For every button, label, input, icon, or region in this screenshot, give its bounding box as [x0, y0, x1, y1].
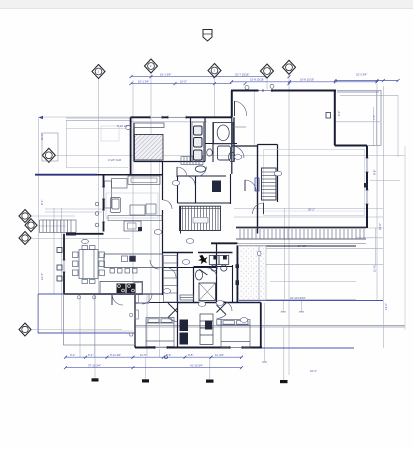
- stove burners dark: [117, 284, 136, 294]
- blue dim y294 left stub: [38, 293, 64, 295]
- closet dark doors: [180, 320, 189, 345]
- dim origin circle: [165, 356, 168, 359]
- bath2 toilet: [195, 270, 202, 280]
- svg-text:11'-3/4": 11'-3/4": [215, 353, 224, 357]
- couch living vertical: [105, 181, 112, 208]
- wall stairwell west x259: [257, 145, 259, 234]
- wall fireplace south y161.5: [134, 161, 205, 163]
- svg-text:9'-11 3/4": 9'-11 3/4": [110, 353, 121, 357]
- svg-text:11'-8": 11'-8": [373, 265, 377, 272]
- foyer closet line: [232, 126, 246, 128]
- master closet drawers dark: [194, 126, 203, 160]
- kitchen island: [104, 254, 163, 268]
- built-in closet master: [192, 122, 204, 162]
- ticks top row2: [130, 82, 133, 85]
- svg-text:3'-1": 3'-1": [70, 353, 75, 357]
- wall stairwell east x277.5: [277, 145, 279, 203]
- left grid leader y225: [38, 225, 66, 227]
- dimension labels: [70, 72, 367, 373]
- black section ticks bottom: [92, 378, 288, 383]
- tick extension x145.5: [145, 358, 147, 379]
- wall hall west x162.5 lower: [162, 210, 164, 253]
- couch living horizontal: [112, 179, 128, 189]
- kitchen sink cabinet: [124, 221, 141, 231]
- wall bed3 east x260.8: [260, 303, 262, 348]
- dining chairs right: [99, 252, 105, 258]
- closet row bed wing: [180, 295, 194, 300]
- grid marker M2: [145, 59, 158, 73]
- patio post line x259: [258, 246, 260, 302]
- window glazing gaps: [64, 91, 367, 348]
- wall family south y294: [64, 293, 135, 295]
- step handrail dark: [66, 233, 76, 236]
- wall bath mid x205: [204, 117, 206, 162]
- svg-text:12'-4": 12'-4": [40, 273, 44, 280]
- deck inner dim vertical x373: [372, 107, 374, 146]
- extension vertical x54: [53, 208, 55, 294]
- svg-text:22'-3 3/4": 22'-3 3/4": [356, 72, 367, 76]
- bed3 door leaf diagonal: [217, 305, 227, 315]
- tick extension x95: [94, 294, 96, 378]
- wall hall west x162.5: [162, 162, 164, 201]
- bed 3 pillows: [223, 321, 235, 325]
- grid marker M1: [92, 65, 105, 79]
- svg-text:14'-2": 14'-2": [384, 303, 388, 310]
- fridge: [134, 283, 142, 294]
- patio extension foot: [262, 361, 267, 363]
- window glass lines: [64, 91, 367, 348]
- long blue line y300.5: [239, 300, 383, 302]
- greatroom inner line2: [264, 210, 365, 212]
- markers group: [19, 30, 296, 337]
- bed1 closet: [139, 295, 150, 304]
- rotated dim labels: [40, 111, 388, 310]
- island sink dark: [130, 256, 136, 262]
- grid leader M3 vertical: [214, 77, 216, 117]
- wall blue deck-edge y174.7: [35, 174, 97, 176]
- grade line y326 double: [135, 325, 405, 327]
- media console: [128, 176, 160, 184]
- wall stair header y144.5: [258, 144, 278, 146]
- svg-text:5'-10 1/4": 5'-10 1/4": [117, 124, 128, 128]
- wall stair west x180.5 upper: [180, 206, 182, 234]
- grid marker M6: [42, 148, 55, 162]
- wall patio west x237.4: [236, 246, 238, 303]
- porch edge y212: [45, 211, 104, 213]
- svg-text:24'-10 13/16": 24'-10 13/16": [290, 296, 306, 300]
- grid marker M4: [261, 64, 274, 78]
- porch extension x283: [282, 301, 284, 312]
- wall laundry north y252.5: [198, 252, 233, 254]
- vanity powder: [218, 146, 231, 160]
- wall greatroom east x367: [366, 146, 368, 229]
- greatroom balcony door tick: [364, 183, 367, 188]
- porch outline bottom left: [64, 294, 136, 345]
- svg-text:37'-10 3/4": 37'-10 3/4": [88, 363, 101, 367]
- wall bath2 south y302.5: [178, 302, 261, 304]
- right margin line y121.8: [334, 121, 380, 123]
- porch line y237.8: [356, 237, 383, 239]
- svg-text:24'-5": 24'-5": [378, 223, 382, 230]
- wall garage west x231.8: [231, 91, 233, 118]
- bed3 door arc: [217, 315, 227, 319]
- grid marker M7: [19, 210, 31, 223]
- bottom dim row 1: [66, 356, 242, 358]
- wall wc north y176: [178, 175, 227, 177]
- extension vertical x61.5: [61, 208, 63, 333]
- bed 3: [221, 320, 250, 348]
- long line y299.3: [241, 298, 356, 300]
- deck posts west: [57, 248, 62, 282]
- kitchen north counter: [108, 216, 162, 221]
- grid line A horizontal: [56, 155, 405, 157]
- extension vertical x147: [146, 294, 148, 357]
- wall hall north y294 thin: [135, 293, 163, 295]
- svg-text:8'-1": 8'-1": [40, 200, 44, 205]
- porch skylight faint: [101, 126, 119, 141]
- patio pilaster 2: [236, 280, 240, 285]
- ticks bottom row1: [64, 356, 67, 359]
- svg-text:16'-8 15/16": 16'-8 15/16": [300, 78, 314, 82]
- svg-text:9'-5": 9'-5": [188, 353, 193, 357]
- porch inner line: [64, 330, 134, 332]
- wall bed wing north y243.3: [211, 242, 237, 244]
- wall bed1 closet south y303: [135, 302, 149, 304]
- long line y281.6: [270, 281, 356, 283]
- bed 1 pillows: [148, 319, 159, 323]
- extension line top-left long: [39, 116, 208, 118]
- wall bath2 east x216.5: [216, 243, 218, 302]
- tick extension x209.8: [209, 358, 211, 379]
- ticks bottom row2: [64, 366, 67, 369]
- kitchen counter south: [100, 282, 143, 295]
- svg-text:10'-3": 10'-3": [310, 369, 317, 373]
- dining table: [79, 250, 98, 279]
- porch post circles: [77, 296, 80, 299]
- window sill ticks: [63, 89, 369, 349]
- foyer door arc: [253, 203, 264, 214]
- wall wc x195.5: [195, 176, 197, 203]
- wall foyer south y146: [232, 145, 258, 147]
- deck inner line: [337, 91, 379, 93]
- svg-text:3 1/2" CLR: 3 1/2" CLR: [108, 158, 121, 162]
- dining chairs left: [73, 252, 79, 258]
- left yard line y128.6: [66, 128, 128, 130]
- wall family west lower x64: [63, 234, 65, 294]
- left dim vertical x38.5: [38, 118, 40, 334]
- door arcs: [142, 101, 256, 311]
- mudroom bench shelving: [193, 218, 208, 224]
- grid leader M5 vertical: [288, 74, 290, 375]
- wall family west x103.5: [103, 176, 105, 232]
- bathtub master: [214, 123, 234, 144]
- wall bed2 closet x232.5: [232, 265, 234, 303]
- bay window seat master: [42, 133, 58, 161]
- deck outline top right: [337, 90, 381, 145]
- wall bath east x234: [233, 117, 235, 162]
- svg-text:7'-1": 7'-1": [372, 115, 376, 120]
- armchair living: [146, 204, 156, 214]
- garage east wall bump: [326, 113, 331, 119]
- bottom dim row 2: [66, 367, 242, 369]
- grid marker M3: [208, 64, 221, 78]
- armchair living 1: [111, 198, 121, 213]
- wall closet row west x177.5: [177, 253, 179, 348]
- wall fireplace west x134: [133, 123, 135, 162]
- porch column bump: [135, 310, 139, 319]
- bed1 door leaf diagonal: [168, 308, 178, 318]
- wall garage north y90.5: [231, 90, 336, 92]
- wall hall west x177.5 upper: [177, 176, 179, 203]
- right margin line y95: [340, 94, 398, 96]
- svg-text:4'-2": 4'-2": [337, 111, 341, 116]
- deck inner dim vertical x376.3: [375, 91, 377, 145]
- wall kitchen east x162.5: [162, 253, 164, 295]
- wall hall south y267.5: [163, 267, 217, 269]
- window band left y120.4: [66, 119, 131, 121]
- column bubbles grid A: [95, 202, 99, 206]
- left grid leader y329.5: [32, 329, 122, 331]
- long line y264.7: [241, 264, 383, 266]
- stair upper flight: [262, 168, 277, 200]
- wall porch east x135: [134, 294, 136, 348]
- wall bath2 west x193.5: [193, 267, 195, 303]
- right margin line y180.6: [370, 180, 400, 182]
- stair lower flight: [180, 206, 221, 230]
- left dim vertical x38: [37, 294, 39, 333]
- left grid leader y216: [32, 215, 75, 217]
- top dim row 1: [131, 76, 267, 78]
- wall porch jog y233.8: [73, 233, 104, 235]
- svg-text:16'-1 3/4": 16'-1 3/4": [138, 80, 149, 84]
- grid marker M9: [19, 232, 31, 245]
- door size pills: [82, 84, 282, 322]
- svg-text:16'-1 3/4": 16'-1 3/4": [160, 72, 171, 76]
- wall greatroom north y145.5: [335, 145, 367, 147]
- grid marker M5: [283, 60, 296, 74]
- wall garage east x334.8: [334, 91, 336, 146]
- svg-text:10'-5": 10'-5": [180, 80, 187, 84]
- svg-text:36'-2": 36'-2": [308, 208, 315, 212]
- wall hall east x230.5: [230, 174, 232, 204]
- svg-text:9'-6": 9'-6": [373, 170, 377, 175]
- window band left y118: [66, 117, 131, 119]
- wall tub south y143.5: [205, 143, 237, 145]
- right dim vertical x398: [397, 95, 399, 157]
- family porch door arc: [112, 294, 123, 305]
- powder vanity dark: [212, 181, 221, 193]
- bed 1: [146, 318, 174, 347]
- wall laundry south y266.5: [194, 266, 233, 268]
- side table living: [130, 205, 145, 215]
- patio extension x94.5: [94, 294, 96, 357]
- far right extension vertical x405: [404, 146, 406, 330]
- grid leader M1 vertical: [98, 78, 100, 294]
- tick extension x283.8: [283, 327, 285, 380]
- wall foyer west x231.8 lower: [231, 117, 233, 174]
- svg-text:6'-1": 6'-1": [88, 353, 93, 357]
- long blue line y348 right: [262, 347, 354, 349]
- left yard line y167.5: [66, 167, 128, 169]
- rug outline: [106, 193, 158, 218]
- grid marker M10: [19, 323, 31, 336]
- patio pilaster 1: [236, 264, 240, 268]
- svg-text:11'-2": 11'-2": [40, 133, 44, 140]
- wall bedrooms south y347.5: [135, 347, 262, 349]
- fireplace hatched mass: [134, 123, 164, 160]
- porch edge y209: [45, 208, 104, 210]
- porch corner connector y228: [367, 227, 384, 229]
- svg-text:32'-7 15/16": 32'-7 15/16": [235, 72, 249, 76]
- exterior steps west: [40, 220, 77, 233]
- laundry washer: [209, 256, 228, 272]
- powder toilet: [195, 166, 205, 172]
- door leaf lines: [177, 101, 245, 191]
- left grid leader y238: [32, 238, 130, 240]
- laundry door leaf diagonal: [199, 269, 207, 275]
- railing band top: [236, 228, 366, 244]
- grid leader M2 vertical: [150, 73, 152, 294]
- ticks top-right stub: [334, 79, 337, 82]
- ticks top row1: [130, 75, 133, 78]
- nightstand bed3: [217, 320, 222, 326]
- extension line master north sill: [131, 121, 207, 123]
- left yard dim vertical x66.3: [65, 121, 67, 168]
- bed1 door arc: [168, 318, 178, 322]
- stippled patio: [239, 246, 267, 300]
- patio extension x80: [79, 294, 81, 357]
- bath2 shower: [199, 283, 216, 301]
- wall stairhall south y252.5: [163, 252, 194, 254]
- svg-text:11'-5": 11'-5": [140, 353, 147, 357]
- dining chairs ends: [82, 246, 88, 250]
- island stools: [110, 269, 115, 274]
- svg-text:8'-5": 8'-5": [166, 353, 171, 357]
- linen closet shelves: [200, 314, 213, 345]
- extension vertical x284.5: [284, 208, 286, 300]
- greatroom tray ceiling: [264, 150, 365, 216]
- extension vertical garage x254: [253, 91, 255, 145]
- long line y217: [234, 216, 383, 218]
- top-right dim stub: [335, 80, 398, 82]
- ticks garage row: [230, 80, 233, 83]
- railing posts: [240, 229, 364, 239]
- wall master west x130.6: [130, 117, 132, 174]
- long line y208.6: [234, 208, 383, 210]
- porch extension x301.5: [301, 301, 303, 312]
- extension vertical x133: [132, 80, 134, 294]
- porch extension feet: [281, 311, 286, 313]
- wall master north y117.3: [131, 116, 232, 118]
- grid leader M4 vertical: [266, 78, 268, 91]
- pantry cabinets column: [164, 256, 178, 303]
- master closet band: [181, 157, 203, 165]
- stair window niche blue: [255, 178, 259, 191]
- svg-text:24'-10": 24'-10": [298, 244, 306, 248]
- master bath sink: [207, 149, 213, 156]
- svg-text:15'-8 15/16": 15'-8 15/16": [250, 78, 264, 82]
- patio extension x264.5: [264, 303, 266, 362]
- porch dim vertical x375.3: [374, 228, 376, 266]
- wall wc south y203: [178, 202, 232, 204]
- wall bath west x190.5: [190, 117, 192, 162]
- extension vertical x159.5: [159, 155, 161, 357]
- right dim vertical x377: [376, 84, 378, 300]
- top toolbar strip: [0, 0, 413, 8]
- top dim row 2: [131, 83, 232, 85]
- svg-text:41'-10 3/4": 41'-10 3/4": [190, 363, 203, 367]
- wall master south y174.7: [97, 174, 163, 176]
- grid marker M8: [25, 219, 37, 232]
- arrowhead left: [39, 116, 44, 119]
- long line y248.3: [241, 247, 383, 249]
- patio edge dark y246: [237, 245, 356, 247]
- wall closets y302.5 mid: [149, 302, 178, 304]
- ceiling fan star symbol: [198, 255, 208, 264]
- bottom-left blue dim y333: [38, 332, 135, 334]
- patio pill: [257, 251, 261, 256]
- keynote tag T1: [203, 30, 212, 42]
- right dim vertical x383: [382, 86, 384, 348]
